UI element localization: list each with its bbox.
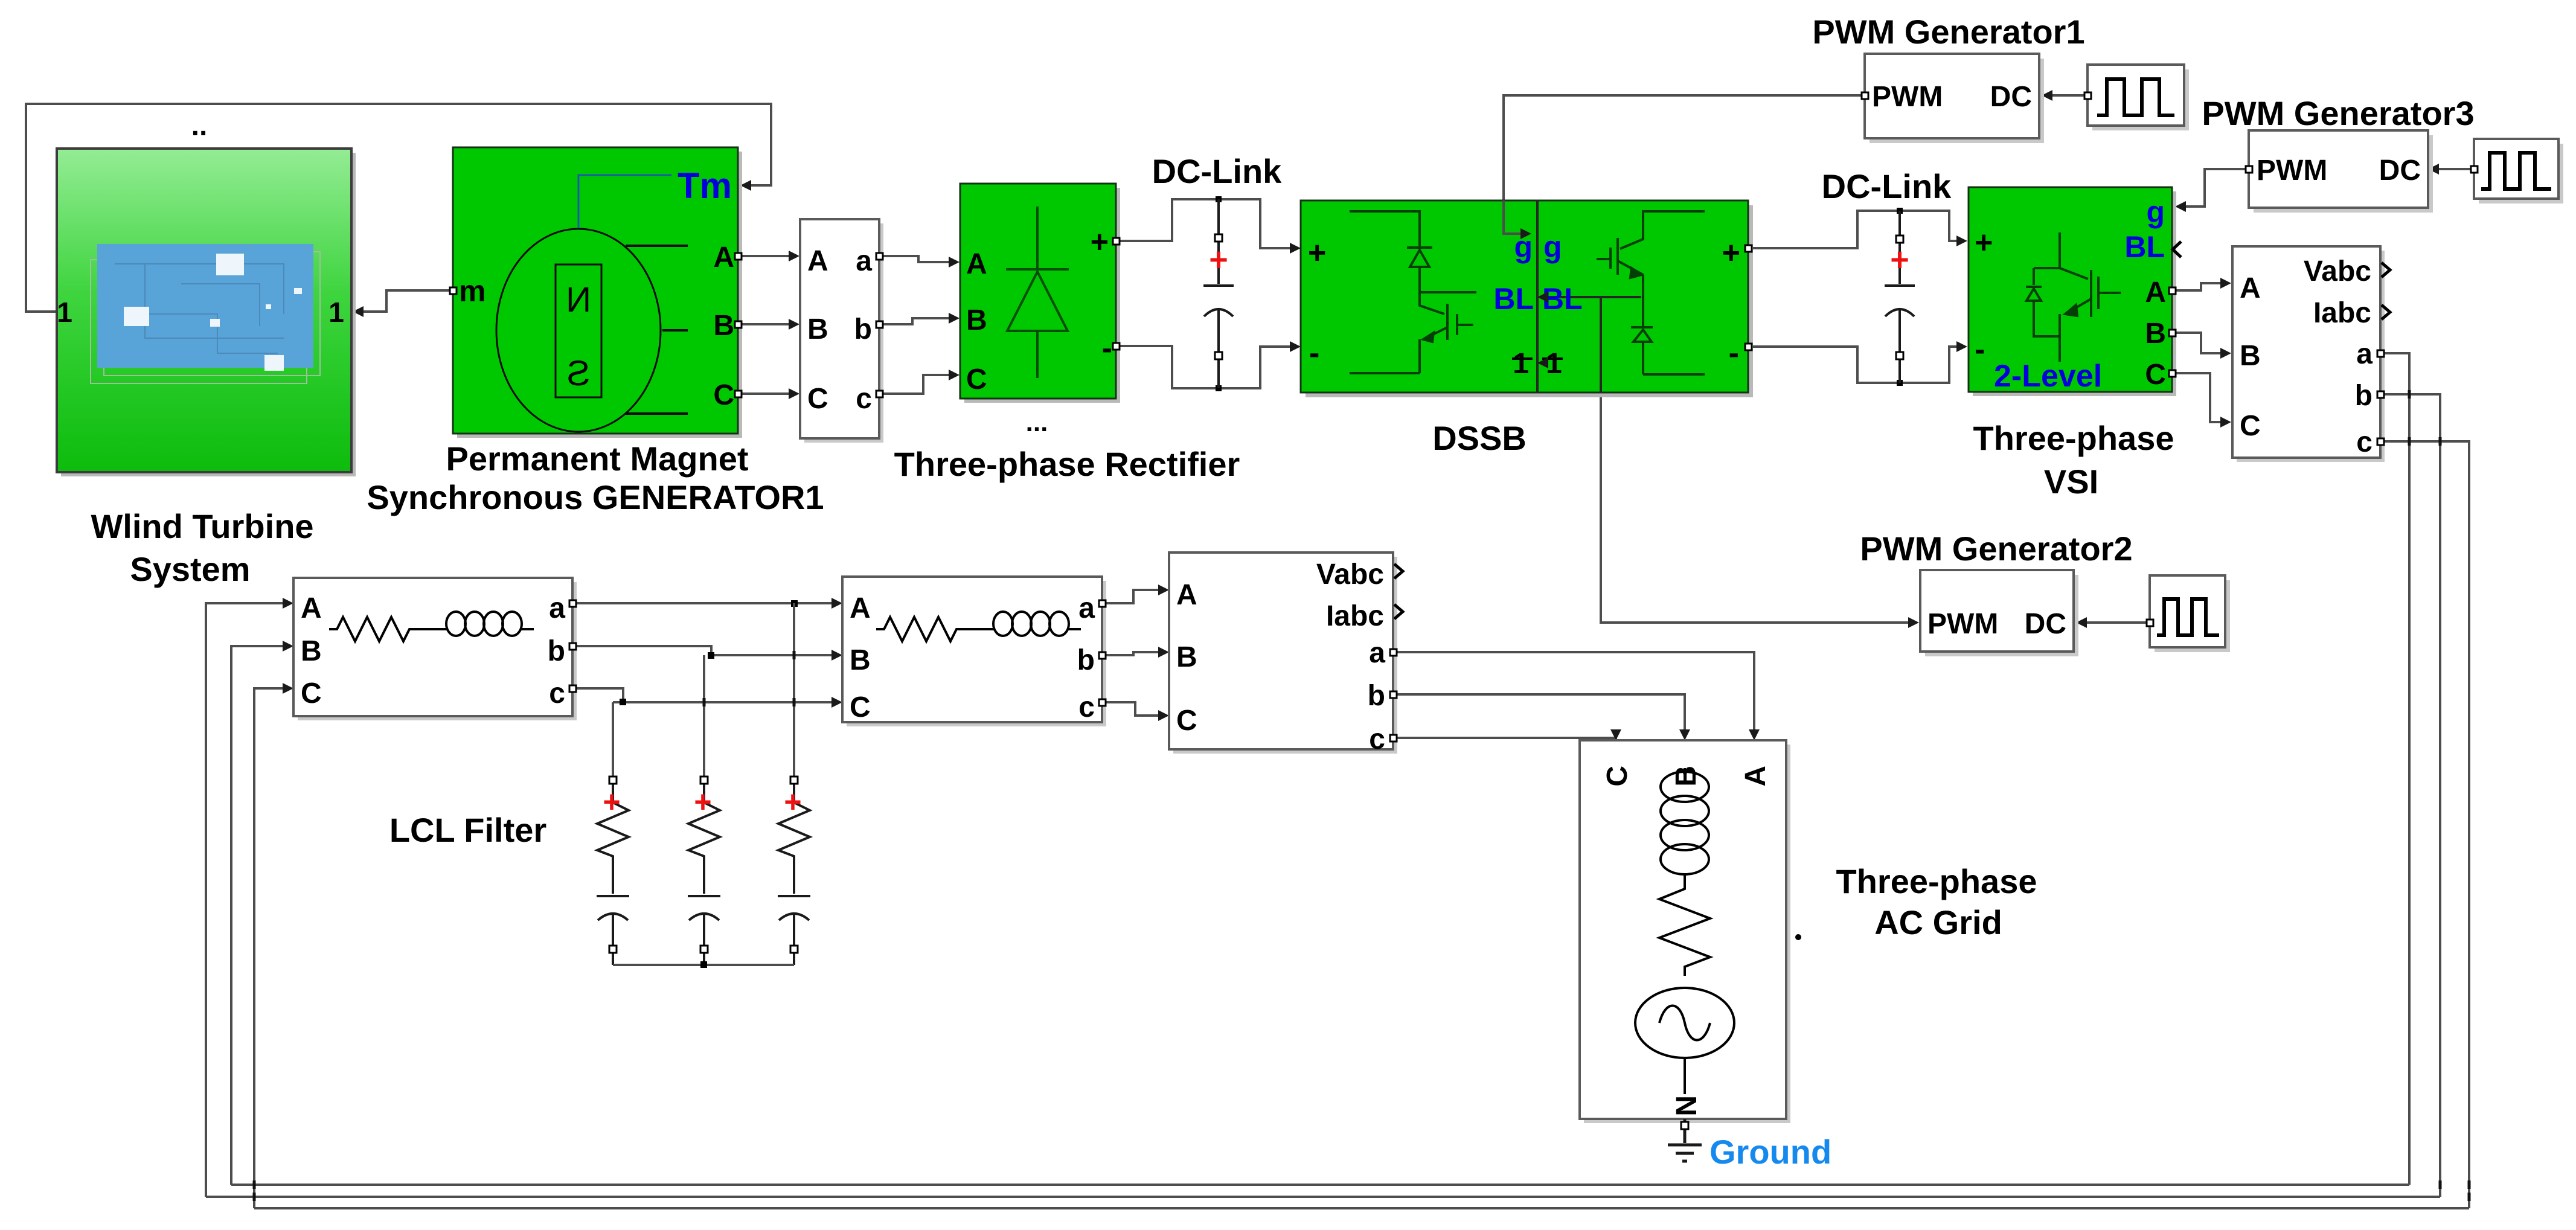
PMSG magnet letters — [566, 280, 591, 319]
generator PMSG block shadow — [457, 152, 742, 438]
stray dot — [1795, 934, 1801, 940]
svg-text:A: A — [966, 248, 987, 280]
svg-text:N: N — [1671, 1095, 1703, 1116]
svg-text:Three-phase Rectifier: Three-phase Rectifier — [894, 445, 1240, 483]
block rectifier shadow — [964, 188, 1120, 403]
svg-text:C: C — [713, 379, 734, 411]
wire bus middle A to b — [206, 1196, 2440, 1198]
wire PMSG A to meas1 A — [739, 255, 795, 257]
port label grid B rotated — [1670, 766, 1702, 787]
svg-text:A: A — [807, 245, 828, 277]
svg-text:DC-Link: DC-Link — [1152, 152, 1283, 190]
PMSG magnet rect — [556, 264, 601, 397]
wire DSSB minus to VSI minus via DC-Link2 bottom rail — [1748, 347, 1962, 383]
PMSG stator stubs — [626, 246, 688, 414]
svg-text:DSSB: DSSB — [1432, 419, 1527, 457]
svg-text:c: c — [856, 383, 872, 415]
svg-text:Vabc: Vabc — [2304, 255, 2371, 287]
svg-text:g: g — [1514, 230, 1533, 264]
block PWM Generator1 — [1865, 54, 2039, 138]
svg-text:VSI: VSI — [2044, 463, 2098, 501]
diode and IGBT icon DSSB left — [1350, 211, 1476, 373]
wire branch1 drop — [612, 702, 614, 780]
svg-text:A: A — [2145, 277, 2166, 309]
wire meas2 c to grid C — [1393, 735, 1616, 738]
svg-text:N: N — [566, 280, 591, 319]
svg-text:b: b — [854, 313, 872, 345]
svg-text:+: + — [1975, 225, 1993, 260]
wire bus to LCL1 C — [254, 688, 289, 1208]
wire meas3 c down right side — [2380, 441, 2469, 1208]
wire PMSG C to meas1 C — [739, 392, 795, 395]
svg-text:1: 1 — [1546, 348, 1562, 380]
svg-text:1: 1 — [1513, 348, 1529, 380]
svg-text:DC: DC — [2025, 608, 2066, 640]
svg-text:-: - — [1729, 336, 1739, 371]
svg-text:S: S — [567, 354, 591, 393]
svg-text:PWM: PWM — [1872, 81, 1943, 113]
wire VSI B to meas3 B — [2172, 333, 2226, 353]
svg-text:g: g — [1543, 230, 1562, 264]
svg-text:a: a — [2356, 338, 2373, 370]
wire bus bottom C to c — [254, 1207, 2469, 1209]
svg-text:Wlind Turbine: Wlind Turbine — [91, 507, 313, 545]
block Three-phase VSI — [1969, 187, 2172, 392]
wire LCL2 b to meas2 B — [1102, 652, 1164, 655]
svg-text:C: C — [807, 383, 828, 415]
AC source icon in grid — [1635, 988, 1734, 1058]
svg-text:PWM Generator3: PWM Generator3 — [2202, 94, 2474, 132]
capacitor DC-Link2 — [1885, 211, 1915, 383]
svg-text:b: b — [1077, 644, 1095, 676]
open arrow VSI BL — [2173, 242, 2181, 257]
resistor inductor icon LCL1 — [329, 612, 534, 641]
svg-text:B: B — [807, 313, 828, 345]
block PWM Generator2 shadow — [1925, 575, 2078, 656]
wire meas3 a down right side — [2380, 353, 2409, 1185]
node DC-Link2 bottom — [1897, 380, 1903, 386]
port label grid A rotated — [1740, 766, 1772, 787]
open arrow meas2 Iabc — [1394, 604, 1403, 619]
svg-text:A: A — [301, 592, 322, 624]
svg-text:B: B — [301, 635, 322, 667]
svg-text:B: B — [713, 310, 734, 342]
PMSG Tm blue lead — [578, 175, 671, 228]
svg-text:LCL Filter: LCL Filter — [389, 811, 546, 849]
block PWM Generator3 shadow — [2254, 135, 2433, 213]
wire bus to LCL1 A — [206, 603, 289, 1197]
wire rectifier plus to DSSB plus via DC-Link1 top rail — [1116, 199, 1296, 248]
svg-text:a: a — [856, 245, 872, 277]
svg-text:c: c — [549, 677, 565, 709]
svg-text:B: B — [1176, 641, 1197, 673]
block LCL1 shadow — [298, 582, 577, 720]
svg-text:+: + — [1722, 235, 1740, 271]
wire LCL1 a to LCL2 A — [572, 602, 838, 604]
wire meas2 b to grid B — [1393, 694, 1685, 735]
svg-text:AC Grid: AC Grid — [1874, 903, 2002, 941]
node DC-Link1 top — [1216, 196, 1222, 202]
wire DSSB BL out down to PWM Generator2 PWM — [1601, 391, 1914, 623]
block Wind Turbine System shadow — [61, 153, 356, 476]
svg-text:A: A — [2240, 272, 2261, 304]
block pulse generator3 — [2474, 139, 2558, 199]
wire RC bottom connector — [613, 964, 794, 966]
svg-text:-: - — [1309, 336, 1319, 371]
inductor icon in grid — [1635, 768, 1734, 1094]
block Three-phase AC Grid — [1580, 740, 1786, 1119]
block DSSB shadow — [1306, 205, 1753, 397]
port label grid N rotated — [1671, 1095, 1703, 1116]
wire PMSG m to turbine port1 — [360, 290, 453, 312]
block LCL1 — [293, 578, 572, 716]
wire bus top B to a — [231, 1184, 2409, 1186]
capacitor branch RC2 — [688, 780, 720, 965]
svg-text:PWM: PWM — [2257, 155, 2327, 187]
svg-text:Permanent Magnet: Permanent Magnet — [446, 440, 749, 478]
svg-text:DC: DC — [1990, 81, 2032, 113]
svg-text:+: + — [784, 785, 801, 819]
svg-text:+: + — [1308, 235, 1326, 271]
IGBT diode icon in VSI — [2026, 232, 2121, 362]
svg-text:A: A — [713, 242, 734, 274]
node DC-Link1 bottom — [1216, 385, 1222, 391]
block meas2 — [1169, 553, 1393, 749]
svg-text:DC-Link: DC-Link — [1822, 167, 1952, 205]
block pulse2 shadow — [2155, 580, 2230, 652]
svg-text:1: 1 — [57, 296, 72, 328]
wire DSSB divider redraw — [1536, 200, 1539, 392]
svg-text:C: C — [301, 677, 322, 709]
open arrow meas3 Iabc — [2382, 305, 2390, 319]
svg-text:b: b — [1368, 680, 1385, 712]
wire rectifier minus to DSSB minus via DC-Link1 bottom rail — [1116, 346, 1296, 388]
wire meas1 a to rectifier A — [880, 256, 955, 262]
wire VSI C to meas3 C — [2172, 373, 2226, 422]
svg-text:b: b — [548, 635, 565, 667]
ground symbol — [1668, 1119, 1702, 1161]
block Wind Turbine System — [57, 149, 351, 472]
resistor inductor icon LCL2 — [876, 612, 1081, 641]
block PWM Generator1 shadow — [1870, 59, 2044, 143]
block Three-phase Rectifier — [960, 184, 1116, 399]
svg-text:PWM: PWM — [1927, 608, 1998, 640]
block meas3 — [2232, 246, 2380, 458]
capacitor DC-Link1 — [1203, 199, 1234, 388]
wire branch2 drop — [703, 655, 705, 780]
block meas3 shadow — [2237, 251, 2385, 462]
wire branch3 drop — [793, 603, 795, 780]
svg-text:C: C — [850, 691, 871, 723]
wire PMSG B to meas1 B — [739, 323, 795, 325]
wire LCL2 a to meas2 A — [1102, 590, 1164, 603]
wire PWM Generator3 PWM to VSI g — [2180, 169, 2249, 207]
block meas1 shadow — [804, 223, 883, 443]
wire DSSB center divider — [1536, 200, 1539, 392]
svg-text:B: B — [1670, 766, 1702, 787]
block meas1 — [800, 219, 879, 438]
svg-text:B: B — [850, 644, 871, 676]
wire meas3 b down right side — [2380, 394, 2440, 1197]
capacitor branch RC3 — [778, 780, 810, 965]
svg-text:PWM Generator2: PWM Generator2 — [1860, 530, 2132, 568]
svg-text:+: + — [1890, 242, 1909, 278]
capacitor branch RC1 — [597, 780, 629, 965]
wire pulse3 to PWM Generator3 DC — [2433, 168, 2474, 170]
wire BL link inside DSSB — [1546, 297, 1641, 392]
svg-text:System: System — [130, 550, 250, 588]
node branch1 tap on wire c — [620, 699, 626, 705]
svg-text:Ground: Ground — [1709, 1133, 1831, 1171]
svg-text:-: - — [1975, 332, 1985, 367]
svg-text:a: a — [549, 592, 565, 624]
block DSSB — [1301, 200, 1748, 392]
svg-text:Synchronous GENERATOR1: Synchronous GENERATOR1 — [367, 478, 824, 516]
svg-text:C: C — [1176, 705, 1197, 737]
svg-text:Iabc: Iabc — [2313, 297, 2371, 329]
svg-text:BL: BL — [1493, 282, 1534, 316]
IGBT and diode icon DSSB right — [1597, 211, 1705, 374]
node DC-Link2 top — [1897, 208, 1903, 214]
screenshot blue inside turbine — [97, 244, 313, 368]
svg-text:2-Level: 2-Level — [1994, 359, 2102, 394]
node branch3 tap on wire a — [791, 600, 798, 607]
svg-text:C: C — [2145, 359, 2166, 391]
svg-text:C: C — [966, 364, 987, 396]
wire crossing ticks — [254, 390, 2469, 1201]
port pads (connector squares) — [450, 92, 2478, 742]
node branch2 tap on wire b — [708, 652, 714, 659]
svg-text:a: a — [1078, 592, 1095, 624]
svg-text:m: m — [459, 274, 485, 308]
wire VSI A to meas3 A — [2172, 283, 2226, 290]
block pulse3 shadow — [2479, 144, 2563, 203]
svg-text:A: A — [1176, 579, 1197, 611]
wire LCL1 b to LCL2 B — [572, 646, 838, 655]
svg-text:Iabc: Iabc — [1326, 600, 1384, 632]
svg-text:c: c — [1078, 691, 1095, 723]
svg-text:Tm: Tm — [678, 165, 732, 206]
svg-text:A: A — [1740, 766, 1772, 787]
wire meas1 b to rectifier B — [880, 318, 955, 324]
svg-text:Vabc: Vabc — [1316, 559, 1384, 591]
svg-text:..: .. — [191, 110, 208, 142]
wire pulse1 to PWM Generator1 DC — [2046, 94, 2087, 97]
open arrow meas2 Vabc — [1394, 564, 1403, 578]
svg-text:B: B — [2145, 318, 2166, 350]
screenshot ghost inside turbine — [104, 252, 320, 376]
svg-text:Three-phase: Three-phase — [1973, 419, 2174, 457]
PMSG rotor circle — [496, 229, 661, 432]
svg-text:PWM Generator1: PWM Generator1 — [1812, 13, 2084, 51]
block ACgrid shadow — [1584, 745, 1790, 1123]
resistor icon in grid — [1659, 879, 1710, 976]
svg-text:Three-phase: Three-phase — [1836, 862, 2037, 900]
open arrow meas3 Vabc — [2382, 263, 2390, 277]
generator PMSG block — [453, 147, 738, 434]
block meas2 shadow — [1173, 557, 1397, 754]
svg-text:+: + — [603, 785, 620, 819]
svg-text:C: C — [1601, 766, 1633, 787]
block PWM Generator2 — [1920, 570, 2074, 652]
svg-text:c: c — [1369, 723, 1385, 755]
svg-text:C: C — [2240, 410, 2261, 442]
svg-text:A: A — [850, 592, 871, 624]
block LCL2 shadow — [847, 581, 1106, 726]
wire meas1 c to rectifier C — [880, 375, 955, 394]
svg-text:B: B — [966, 304, 987, 336]
svg-text:+: + — [1209, 242, 1228, 278]
block PWM Generator3 — [2249, 130, 2428, 208]
wire turbine port1 feedback to PMSG Tm — [26, 104, 771, 312]
block pulse generator2 — [2150, 575, 2225, 647]
svg-text:-: - — [1102, 331, 1112, 366]
wire DSSB plus to VSI plus via DC-Link2 top rail — [1748, 211, 1962, 248]
svg-text:...: ... — [1026, 408, 1048, 437]
block pulse generator1 — [2087, 65, 2184, 126]
svg-text:BL: BL — [2124, 230, 2165, 264]
svg-text:B: B — [2240, 340, 2261, 372]
block VSI shadow — [1973, 191, 2176, 396]
svg-text:c: c — [2356, 426, 2373, 458]
wire LCL2 c to meas2 C — [1102, 702, 1164, 716]
diode icon in rectifier — [1006, 207, 1069, 378]
block LCL2 — [842, 577, 1102, 722]
svg-text:1: 1 — [328, 296, 344, 328]
svg-text:+: + — [1091, 225, 1109, 260]
port label grid C rotated — [1601, 766, 1633, 787]
wire meas2 a to grid A — [1393, 652, 1754, 735]
wire PWM1 to g inside DSSB — [1504, 200, 1525, 234]
wire bus to LCL1 B — [231, 646, 289, 1185]
wire LCL1 c to LCL2 C — [572, 688, 838, 702]
svg-text:b: b — [2355, 380, 2373, 412]
svg-text:+: + — [694, 785, 711, 819]
svg-text:g: g — [2146, 195, 2165, 229]
wire PWM Generator1 PWM to DSSB g — [1504, 95, 1865, 202]
wire pulse2 to PWM Generator2 DC — [2081, 621, 2150, 624]
svg-text:a: a — [1369, 637, 1385, 669]
node RC bottom middle — [700, 961, 707, 968]
block pulse1 shadow — [2092, 69, 2189, 130]
svg-text:DC: DC — [2379, 155, 2421, 187]
